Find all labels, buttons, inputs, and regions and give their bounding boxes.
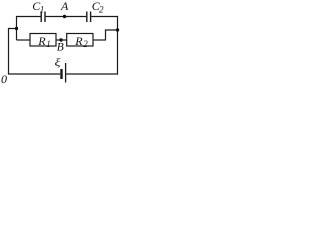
wire: between R1 and R2 bbox=[56, 39, 67, 41]
wire: bottom left segment bbox=[8, 73, 60, 75]
battery cell (EMF source) bbox=[54, 56, 65, 82]
wire: left rail from top to resistor branch bbox=[16, 16, 18, 40]
svg-text:R: R bbox=[74, 34, 83, 48]
wire: top branch left segment bbox=[17, 16, 41, 18]
wire: left stub to battery loop bbox=[9, 28, 17, 30]
wire: outer left rail down bbox=[8, 28, 10, 74]
svg-text:A: A bbox=[60, 0, 69, 13]
wire: top branch right segment bbox=[91, 16, 117, 18]
wire: resistor branch right lead bbox=[93, 39, 106, 41]
wire: resistor branch left lead bbox=[17, 39, 31, 41]
svg-text:ξ: ξ bbox=[54, 56, 61, 68]
capacitor C1 bbox=[32, 0, 45, 22]
resistor R1 bbox=[30, 34, 56, 50]
node A bbox=[60, 0, 69, 18]
resistor R2 bbox=[67, 34, 93, 50]
svg-text:2: 2 bbox=[83, 39, 88, 49]
svg-text:B: B bbox=[57, 42, 64, 54]
wire: right rail bbox=[117, 16, 119, 75]
svg-text:R: R bbox=[37, 34, 46, 48]
svg-text:1: 1 bbox=[40, 4, 45, 14]
node: right junction dot bbox=[116, 28, 119, 31]
node: left junction dot bbox=[15, 27, 18, 30]
svg-text:2: 2 bbox=[99, 4, 104, 14]
svg-text:0: 0 bbox=[1, 72, 7, 84]
svg-text:1: 1 bbox=[46, 39, 51, 49]
wire: top branch middle segment bbox=[46, 16, 87, 18]
wire: right stub to resistor branch bbox=[106, 30, 119, 40]
capacitor C2 bbox=[87, 0, 104, 22]
wire: bottom right segment bbox=[66, 73, 117, 75]
node B bbox=[57, 38, 64, 53]
